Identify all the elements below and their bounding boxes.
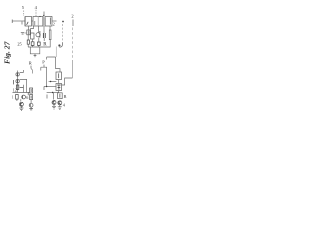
box A inner mark: [27, 22, 29, 25]
supply feed wire: [47, 57, 56, 60]
junction dot on wire: [50, 81, 51, 82]
current source top: [16, 73, 19, 76]
junction dot box B top: [39, 16, 40, 17]
box C inner mark: [49, 18, 51, 25]
wire low right of rail: [20, 85, 24, 88]
wire box C output: [52, 20, 57, 22]
drop wire right element: [49, 26, 51, 30]
faint vertical above supply: [55, 47, 57, 58]
capacitor left plates: [21, 32, 24, 34]
leader P down: [43, 65, 45, 68]
svg-text:2: 2: [53, 22, 55, 27]
wire left into junction: [49, 81, 57, 83]
box Q1: [56, 84, 62, 91]
wire mid right of rail: [20, 79, 27, 92]
output connector hook: [59, 43, 62, 48]
wire right element to bus: [49, 40, 51, 47]
wire resistor to bus: [31, 39, 33, 47]
ground Q4: [19, 107, 23, 111]
drop wire box A: [28, 26, 30, 30]
tick below left end: [46, 95, 48, 99]
transistor circle mid: [36, 33, 40, 37]
drop wire capacitor mid: [43, 26, 45, 33]
wire input to box A: [12, 20, 25, 22]
box C: [45, 17, 52, 27]
bias column lower blob inner: [30, 96, 32, 99]
right rail down segment: [71, 60, 73, 78]
wire up right of rail: [20, 70, 24, 72]
leader tick between B and C: [43, 12, 45, 17]
box B inner divider: [37, 17, 39, 26]
drop wire resistor mid: [31, 26, 34, 33]
wire crystal down: [27, 35, 29, 40]
transistor stem right: [39, 31, 41, 38]
bias rail left: [17, 71, 19, 93]
wire capacitor to crystal: [25, 32, 27, 34]
bottom bus cluster: [13, 92, 31, 94]
ground Q3: [58, 105, 62, 110]
wire down to Q2: [52, 93, 54, 100]
transistor Q5 column: [29, 103, 33, 107]
wire below Q1: [58, 91, 60, 93]
current source bottom arrow: [17, 80, 19, 83]
faint leader down: [31, 68, 32, 73]
wire transistor to bus: [38, 38, 40, 47]
junction to Q4: [20, 99, 22, 101]
wire resistor down: [16, 99, 18, 101]
box Q1 dark inner: [57, 85, 60, 90]
svg-text:1: 1: [12, 96, 14, 100]
current source top arrow: [17, 73, 19, 76]
svg-text:5: 5: [22, 5, 25, 10]
blob below crystal: [27, 40, 29, 44]
wire capacitor to bus: [43, 38, 45, 41]
transistor blob cluster right: [22, 95, 26, 99]
leader to box B: [35, 10, 37, 16]
leader to box A: [23, 11, 25, 17]
resistor blob cluster left: [16, 95, 19, 100]
box R1: [56, 72, 62, 80]
box A: [25, 17, 32, 27]
dot on base wire: [46, 86, 47, 87]
svg-text:2: 2: [71, 14, 73, 19]
transistor Q3: [58, 101, 62, 105]
ground bus: [28, 46, 51, 48]
small element right: [49, 30, 51, 40]
tick left of column: [27, 92, 29, 95]
base wire into Q1: [44, 86, 56, 88]
svg-text:4: 4: [63, 103, 66, 108]
wire box A to box B: [32, 20, 34, 22]
svg-text:25: 25: [17, 41, 21, 46]
diode blob below transistor: [38, 42, 41, 45]
leader dot: [43, 15, 44, 16]
cluster right inner: [22, 96, 24, 99]
box B: [33, 17, 43, 27]
box R3 inner: [59, 94, 61, 98]
capacitor mid dark bars: [43, 33, 45, 38]
Q4 inner marks: [20, 102, 22, 106]
resistor box mid: [31, 33, 34, 39]
Q3 inner marks: [59, 101, 61, 105]
ground below loop: [34, 54, 37, 57]
dashed output line: [61, 24, 63, 43]
supply wire top right col: [56, 57, 60, 72]
ground Q2: [52, 105, 56, 110]
diode blob below resistor: [31, 42, 34, 46]
svg-text:P: P: [42, 60, 45, 65]
svg-text:6: 6: [26, 95, 28, 100]
input terminal: [11, 20, 13, 24]
bias column lower blob: [30, 95, 33, 100]
crystal inner dark mark: [28, 31, 30, 35]
junction dot lower bus: [52, 92, 53, 93]
transistor Q2: [52, 101, 56, 105]
box B inner small mark: [34, 21, 36, 25]
Q2 inner marks: [53, 100, 55, 104]
box edge accents: [25, 17, 45, 26]
wire cluster top corner: [20, 87, 24, 92]
long faint rail right: [72, 28, 74, 60]
lower bus: [47, 92, 59, 94]
transistor Q4: [19, 102, 23, 106]
wire P right and down: [41, 67, 47, 86]
tick at left end base wire: [43, 87, 45, 91]
leader dash below numeral: [72, 20, 74, 27]
svg-text:Fig. 27: Fig. 27: [3, 40, 12, 64]
wire blob to bus: [27, 44, 29, 47]
svg-text:4: 4: [35, 5, 38, 10]
junction between boxes: [58, 80, 60, 84]
ground Q5: [29, 107, 33, 110]
bias column upper blob inner: [30, 89, 32, 92]
box R3 right col: [58, 93, 63, 99]
bias column x31 upper blob: [30, 88, 33, 93]
output node blob: [62, 21, 64, 23]
current source bottom: [16, 80, 19, 83]
dark comp on rail lower: [16, 85, 18, 89]
svg-text:12: 12: [13, 88, 17, 93]
wire column down: [30, 100, 32, 103]
base tick left: [13, 80, 15, 84]
Q5 inner: [29, 104, 31, 107]
svg-text:B: B: [64, 94, 67, 99]
output wire right of Q1: [62, 78, 73, 85]
svg-text:R: R: [29, 61, 32, 66]
box R1 inner mark: [58, 73, 60, 78]
U loop below bus: [30, 47, 40, 54]
component crystal left: [27, 30, 30, 35]
tick below label: [30, 66, 32, 69]
junction tick on input wire: [21, 22, 23, 25]
drop wire transistor mid: [38, 26, 40, 32]
